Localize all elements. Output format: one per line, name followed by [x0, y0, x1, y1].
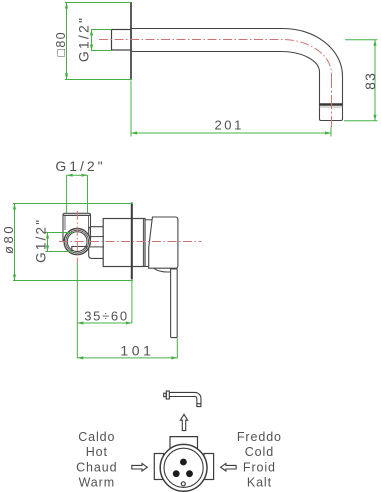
svg-text:G1/2": G1/2": [76, 16, 92, 62]
svg-text:Froid: Froid: [243, 460, 276, 474]
svg-text:Kalt: Kalt: [247, 476, 272, 490]
svg-text:201: 201: [214, 118, 244, 133]
svg-text:Warm: Warm: [79, 476, 115, 490]
svg-text:Chaud: Chaud: [76, 460, 117, 474]
svg-text:Freddo: Freddo: [237, 430, 282, 444]
svg-text:ø80: ø80: [1, 224, 16, 254]
svg-text:Cold: Cold: [245, 445, 274, 459]
svg-text:Caldo: Caldo: [78, 430, 115, 444]
svg-text:Hot: Hot: [86, 445, 108, 459]
svg-text:101: 101: [120, 343, 154, 359]
svg-text:83: 83: [362, 72, 378, 90]
svg-text:G1/2": G1/2": [55, 158, 105, 174]
svg-text:35÷60: 35÷60: [84, 309, 129, 324]
svg-text:G1/2": G1/2": [33, 218, 48, 263]
svg-text:□80: □80: [54, 31, 68, 56]
